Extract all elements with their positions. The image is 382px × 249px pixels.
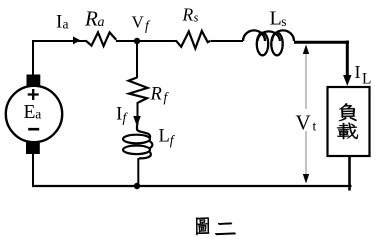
inductor Ls bbox=[243, 30, 294, 55]
wire Rf to Lf bbox=[137, 102, 139, 125]
svg-text:I: I bbox=[56, 12, 62, 33]
svg-text:L: L bbox=[159, 127, 170, 147]
svg-text:L: L bbox=[362, 71, 371, 88]
wire top-left rail bbox=[33, 40, 86, 75]
wire bottom rail bbox=[32, 185, 352, 187]
arrowhead If current arrow bbox=[133, 116, 141, 127]
svg-text:a: a bbox=[35, 107, 41, 122]
wire Lf to bottom node bbox=[137, 158, 139, 186]
wire Rs to Ls bbox=[211, 40, 243, 42]
svg-text:I: I bbox=[355, 62, 361, 82]
wire machine to bottom rail bbox=[32, 153, 34, 187]
svg-text:V: V bbox=[132, 13, 145, 32]
arrowhead IL current arrow bbox=[343, 75, 351, 86]
Vt dimension line lower bbox=[305, 131, 307, 177]
minus polarity mark bbox=[28, 128, 39, 131]
arrowhead Vt up bbox=[303, 45, 309, 55]
label load char 2 (zai) bbox=[337, 123, 358, 140]
svg-text:R: R bbox=[182, 5, 194, 25]
plus polarity mark bbox=[28, 89, 39, 100]
label load char 1 (fu) bbox=[339, 103, 357, 121]
node bottom junction dot bbox=[134, 183, 140, 189]
node Vf junction dot bbox=[134, 38, 140, 44]
svg-text:L: L bbox=[270, 8, 282, 30]
wire Vf node down to Rf bbox=[136, 44, 138, 78]
svg-text:I: I bbox=[116, 104, 122, 125]
wire load box to bottom rail bbox=[348, 156, 351, 191]
wire Ls to top-right corner bbox=[294, 41, 349, 78]
machine Ea circle bbox=[6, 86, 62, 142]
resistor Rf bbox=[129, 78, 148, 103]
arrowhead Ia current arrow bbox=[73, 36, 81, 44]
svg-text:s: s bbox=[281, 14, 286, 29]
Vt dimension line upper bbox=[305, 51, 307, 109]
brush top terminal bbox=[27, 75, 41, 88]
caption figure char 2 (er) bbox=[215, 223, 235, 235]
svg-text:a: a bbox=[63, 17, 69, 32]
resistor Ra bbox=[86, 32, 117, 46]
svg-text:R: R bbox=[84, 6, 98, 30]
svg-text:V: V bbox=[296, 111, 311, 135]
brush bottom terminal bbox=[26, 142, 40, 155]
wire Ra to Rs bbox=[116, 40, 176, 42]
caption figure char 1 (tu) bbox=[196, 218, 209, 235]
resistor Rs bbox=[176, 31, 211, 49]
svg-text:a: a bbox=[98, 15, 105, 30]
arrowhead Vt down bbox=[303, 174, 309, 184]
svg-text:E: E bbox=[24, 102, 36, 123]
load box bbox=[328, 87, 370, 156]
svg-text:t: t bbox=[313, 119, 317, 134]
inductor Lf bbox=[123, 125, 152, 158]
svg-text:R: R bbox=[150, 84, 162, 104]
svg-text:s: s bbox=[194, 10, 199, 24]
